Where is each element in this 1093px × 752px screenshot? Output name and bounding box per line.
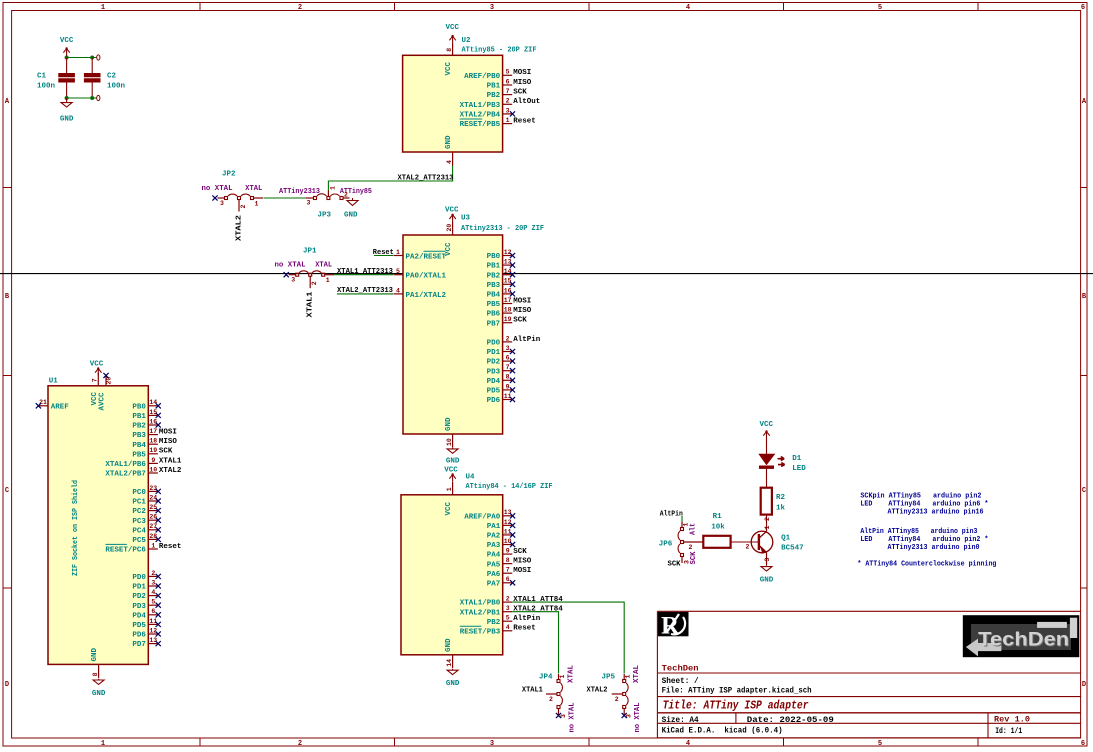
- U3 pin 1 PA2/RESET: [393, 249, 446, 262]
- wire XTAL2_ATT2313 from U2 pin4 to JP3: [328, 166, 452, 191]
- U3 pin 2 PD0: [487, 335, 541, 347]
- dangling wire end bottom: [97, 95, 100, 100]
- power symbol VCC above U3: [445, 207, 459, 223]
- U2 pin 5 AREF/PB0: [464, 69, 531, 81]
- svg-text:6: 6: [151, 608, 155, 615]
- wire VCC rail to C1/C2: [67, 57, 97, 59]
- svg-text:14: 14: [149, 399, 157, 406]
- svg-text:3: 3: [291, 277, 295, 284]
- svg-text:BC547: BC547: [781, 545, 804, 553]
- U1 pin 25 PC2: [132, 504, 160, 516]
- svg-text:Id: 1/1: Id: 1/1: [995, 727, 1022, 736]
- U3 pin 10 GND (bottom): [445, 417, 453, 448]
- svg-text:GND: GND: [446, 680, 460, 688]
- svg-text:13: 13: [149, 637, 157, 644]
- svg-text:6: 6: [1081, 4, 1085, 12]
- svg-text:MOSI: MOSI: [513, 567, 531, 575]
- svg-text:XTAL1/PB0: XTAL1/PB0: [460, 600, 501, 608]
- wire JP2 pin1 to JP3 pin3: [264, 197, 307, 199]
- wire GND rail under C1/C2: [67, 97, 97, 99]
- U3 pin 3 PD1: [487, 345, 515, 357]
- svg-text:A: A: [5, 98, 10, 106]
- svg-text:10: 10: [149, 466, 157, 473]
- svg-text:3: 3: [490, 740, 494, 748]
- wire D1 to R2: [766, 469, 768, 488]
- svg-text:7: 7: [506, 567, 510, 574]
- svg-text:3: 3: [506, 345, 510, 352]
- svg-text:17: 17: [504, 297, 512, 304]
- jumper JP5: [612, 674, 633, 718]
- svg-text:AltPin ATTiny85 arduino pin3: AltPin ATTiny85 arduino pin3: [860, 528, 977, 536]
- svg-text:PA6: PA6: [487, 571, 501, 579]
- svg-text:PD5: PD5: [487, 388, 501, 396]
- junction at C1 top: [65, 56, 69, 60]
- svg-text:PB3: PB3: [487, 282, 501, 290]
- svg-text:GND: GND: [760, 577, 774, 585]
- U1 pin 7 VCC (top): [91, 373, 99, 406]
- svg-text:12: 12: [149, 627, 157, 634]
- svg-text:MISO: MISO: [159, 438, 178, 446]
- svg-text:4: 4: [446, 160, 453, 164]
- U1 pin 3 PD1: [132, 579, 160, 591]
- svg-text:3: 3: [506, 107, 510, 114]
- svg-text:GND: GND: [445, 638, 453, 652]
- svg-text:6: 6: [506, 78, 510, 85]
- svg-text:20: 20: [106, 377, 113, 385]
- resistor R2: [761, 488, 772, 515]
- svg-text:D: D: [5, 681, 9, 689]
- power symbol VCC above U2: [445, 24, 459, 42]
- svg-text:1: 1: [764, 526, 771, 530]
- svg-text:2: 2: [506, 335, 510, 342]
- svg-text:MISO: MISO: [513, 558, 532, 566]
- svg-text:XTAL1_ATT2313: XTAL1_ATT2313: [337, 268, 393, 276]
- svg-text:XTAL2: XTAL2: [235, 214, 243, 241]
- svg-text:C: C: [5, 487, 9, 495]
- svg-text:1k: 1k: [776, 505, 786, 513]
- svg-text:GND: GND: [445, 417, 453, 431]
- ground symbol below U3: [446, 448, 460, 466]
- U3 pin 16 PB4: [487, 287, 515, 299]
- svg-text:1: 1: [396, 249, 400, 256]
- ground symbol below U1: [92, 679, 106, 698]
- svg-text:2: 2: [344, 192, 348, 199]
- svg-text:12: 12: [504, 249, 512, 256]
- svg-text:R1: R1: [713, 513, 723, 521]
- svg-text:RESET/PB5: RESET/PB5: [460, 121, 501, 129]
- U3 pin 8 PD4: [487, 374, 515, 386]
- U1 pin 17 PB3: [132, 428, 177, 440]
- U1 pin 24 PC1: [132, 494, 160, 506]
- svg-text:1: 1: [559, 675, 566, 679]
- svg-text:2: 2: [311, 281, 318, 285]
- U2 pin 1 RESET/PB5: [460, 117, 536, 129]
- svg-text:Sheet: /: Sheet: /: [662, 677, 699, 686]
- svg-text:XTAL1: XTAL1: [307, 291, 315, 318]
- svg-text:13: 13: [504, 259, 512, 266]
- U1 pin 21 AREF (left, no-connect): [36, 399, 70, 412]
- svg-text:27: 27: [149, 523, 157, 530]
- svg-text:PB2: PB2: [487, 272, 501, 280]
- svg-text:XTAL: XTAL: [633, 665, 641, 683]
- ground symbol at JP3: [344, 198, 358, 220]
- svg-text:D: D: [1082, 681, 1086, 689]
- svg-text:AVCC: AVCC: [99, 392, 107, 411]
- svg-text:5: 5: [151, 599, 155, 606]
- jumper JP6: [678, 522, 703, 564]
- U4 pin 3 XTAL2/PB1: [460, 605, 564, 617]
- U1 pin 26 PC3: [132, 514, 160, 526]
- svg-text:20: 20: [446, 224, 453, 232]
- svg-text:PB3: PB3: [132, 432, 146, 440]
- svg-text:19: 19: [504, 316, 512, 323]
- svg-text:17: 17: [149, 428, 157, 435]
- svg-text:A: A: [1082, 98, 1087, 106]
- U2 pin 7 PB2: [487, 88, 528, 100]
- svg-text:U4: U4: [466, 474, 476, 482]
- svg-text:PB2: PB2: [487, 92, 501, 100]
- ground symbol below Q1: [760, 565, 774, 584]
- svg-text:PB1: PB1: [487, 263, 501, 271]
- svg-text:21: 21: [39, 399, 47, 406]
- svg-text:2: 2: [689, 544, 693, 551]
- U3 pin 7 PD3: [487, 364, 515, 376]
- svg-text:XTAL2/PB4: XTAL2/PB4: [460, 112, 501, 120]
- svg-text:PD2: PD2: [487, 359, 501, 367]
- U3 pin 11 PD6: [487, 393, 515, 405]
- svg-text:10: 10: [504, 538, 512, 545]
- U1 pin 20 AVCC (top, no-connect): [99, 373, 113, 411]
- svg-text:PA0/XTAL1: PA0/XTAL1: [406, 273, 447, 281]
- wire XTAL1_ATT84 from U4 pin2 to JP5: [512, 602, 624, 673]
- svg-text:10: 10: [446, 438, 453, 446]
- wire XTAL2_ATT2313 to U3 pin 4: [337, 293, 393, 295]
- svg-text:6: 6: [506, 576, 510, 583]
- svg-text:19: 19: [149, 447, 157, 454]
- U1 pin 4 PD2: [132, 589, 160, 601]
- svg-text:PB2: PB2: [132, 423, 146, 431]
- svg-text:2: 2: [549, 696, 553, 703]
- svg-text:JP6: JP6: [659, 541, 673, 549]
- svg-text:Rev 1.0: Rev 1.0: [994, 715, 1030, 725]
- svg-text:XTAL1_ATT84: XTAL1_ATT84: [513, 596, 563, 604]
- U1 pin 23 PC0: [132, 485, 160, 497]
- U1 pin 1 RESET/PC6: [105, 542, 181, 554]
- svg-text:VCC: VCC: [60, 37, 74, 45]
- svg-text:12: 12: [504, 519, 512, 526]
- svg-text:PD5: PD5: [132, 622, 146, 630]
- svg-text:JP1: JP1: [303, 248, 317, 256]
- svg-text:XTAL2_ATT84: XTAL2_ATT84: [513, 606, 563, 614]
- svg-text:PB2: PB2: [487, 619, 501, 627]
- svg-text:* ATTiny84 Counterclockwise pi: * ATTiny84 Counterclockwise pinning: [857, 561, 996, 569]
- notes text block pin mapping: [857, 492, 996, 568]
- svg-text:9: 9: [506, 383, 510, 390]
- U4 pin 6 PA7: [487, 576, 515, 588]
- TechDen 3D logo: [963, 616, 1079, 657]
- svg-text:2: 2: [615, 696, 619, 703]
- svg-text:LED: LED: [792, 465, 806, 473]
- svg-text:PB1: PB1: [132, 413, 146, 421]
- svg-text:PA2: PA2: [487, 533, 501, 541]
- svg-text:JP5: JP5: [602, 674, 616, 682]
- jumper JP3: [306, 186, 350, 207]
- svg-text:PD6: PD6: [132, 632, 146, 640]
- svg-text:4: 4: [686, 4, 690, 12]
- svg-text:2: 2: [151, 570, 155, 577]
- svg-text:13: 13: [504, 509, 512, 516]
- wire XTAL1_ATT2313 from JP1 to U3: [334, 274, 393, 276]
- svg-text:XTAL1: XTAL1: [522, 686, 543, 694]
- svg-text:3: 3: [506, 605, 510, 612]
- power symbol VCC above U1: [90, 361, 104, 376]
- junction at C2 top: [90, 56, 94, 60]
- wire VCC to D1: [766, 442, 768, 454]
- svg-text:4: 4: [396, 287, 400, 294]
- U4 pin 11 PA2: [487, 528, 515, 540]
- junction at C2 bottom: [90, 96, 94, 100]
- svg-text:B: B: [5, 293, 10, 301]
- svg-text:3: 3: [220, 200, 224, 207]
- svg-text:1: 1: [446, 487, 453, 491]
- svg-text:5: 5: [396, 268, 400, 275]
- U4 pin 1 VCC (top): [445, 482, 453, 516]
- transistor Q1 BC547: [751, 526, 773, 566]
- svg-text:XTAL: XTAL: [315, 262, 332, 270]
- dangling wire end top: [97, 55, 100, 60]
- long horizontal graphic line across sheet: [0, 273, 1093, 275]
- U1 pin 14 PB0: [132, 399, 160, 411]
- svg-text:XTAL2_ATT2313: XTAL2_ATT2313: [337, 287, 393, 295]
- svg-text:1: 1: [625, 675, 632, 679]
- U4 pin 8 PA5: [487, 557, 532, 569]
- svg-text:ATtiny2313 - 20P ZIF: ATtiny2313 - 20P ZIF: [461, 225, 544, 233]
- svg-text:AltPin: AltPin: [513, 336, 541, 344]
- U1 pin 28 PC5: [132, 533, 160, 545]
- U1 pin 19 PB5: [132, 447, 173, 459]
- svg-text:PC1: PC1: [132, 499, 146, 507]
- svg-text:PD0: PD0: [487, 340, 501, 348]
- svg-text:XTAL2/PB7: XTAL2/PB7: [105, 471, 146, 479]
- svg-text:File: ATTiny ISP adapter.kicad: File: ATTiny ISP adapter.kicad_sch: [662, 686, 812, 695]
- U3 pin 17 PB5: [487, 297, 532, 309]
- svg-text:AREF/PB0: AREF/PB0: [464, 73, 501, 81]
- svg-text:ZIF Socket on ISP Shield: ZIF Socket on ISP Shield: [72, 480, 80, 576]
- svg-text:JP2: JP2: [222, 171, 236, 179]
- svg-text:VCC: VCC: [445, 24, 459, 32]
- U1 pin 18 PB4: [132, 438, 177, 450]
- U1 pin 12 PD6: [132, 627, 160, 639]
- svg-text:1: 1: [101, 740, 105, 748]
- svg-text:6: 6: [506, 355, 510, 362]
- capacitor C2: [84, 58, 101, 99]
- svg-text:AREF: AREF: [51, 404, 70, 412]
- svg-text:R2: R2: [776, 494, 786, 502]
- U1 pin 13 PD7: [132, 637, 160, 649]
- svg-text:18: 18: [504, 307, 512, 314]
- svg-text:ATTiny2313 arduino pin0: ATTiny2313 arduino pin0: [888, 544, 980, 552]
- svg-text:MOSI: MOSI: [159, 429, 177, 437]
- svg-text:MOSI: MOSI: [513, 69, 531, 77]
- svg-text:2: 2: [298, 4, 302, 12]
- svg-text:PD1: PD1: [132, 584, 146, 592]
- svg-text:ATTiny2313: ATTiny2313: [279, 188, 320, 196]
- svg-text:28: 28: [149, 533, 157, 540]
- svg-text:5: 5: [506, 69, 510, 76]
- U3 pin 4 PA1/XTAL2: [393, 287, 446, 300]
- svg-text:SCK: SCK: [513, 548, 527, 556]
- svg-text:XTAL1: XTAL1: [159, 457, 182, 465]
- svg-text:Reset: Reset: [513, 625, 536, 633]
- svg-text:VCC: VCC: [759, 421, 773, 429]
- svg-text:VCC: VCC: [445, 61, 453, 75]
- U4 pin 14 GND (bottom): [445, 638, 453, 668]
- U2 pin 4 GND (bottom): [445, 135, 453, 166]
- svg-text:VCC: VCC: [445, 501, 453, 515]
- svg-text:PB7: PB7: [487, 320, 501, 328]
- svg-text:100n: 100n: [37, 83, 56, 91]
- svg-text:XTAL2_ATT2313: XTAL2_ATT2313: [398, 174, 454, 182]
- ground symbol below U4: [446, 669, 460, 688]
- svg-text:ATTiny2313 arduino pin16: ATTiny2313 arduino pin16: [888, 509, 984, 517]
- svg-text:1: 1: [506, 117, 510, 124]
- U4 pin 9 PA4: [487, 547, 528, 559]
- svg-text:B: B: [1082, 293, 1087, 301]
- svg-text:SCK: SCK: [159, 448, 173, 456]
- jumper JP1: [284, 271, 335, 288]
- svg-text:1: 1: [326, 277, 330, 284]
- svg-text:LED ATTiny84 arduino pin2: LED ATTiny84 arduino pin2 *: [860, 536, 988, 544]
- svg-text:PB6: PB6: [487, 311, 501, 319]
- svg-text:ATtiny84 - 14/16P ZIF: ATtiny84 - 14/16P ZIF: [466, 483, 553, 491]
- svg-text:XTAL2: XTAL2: [587, 686, 608, 694]
- svg-text:15: 15: [504, 278, 512, 285]
- svg-text:15: 15: [149, 409, 157, 416]
- svg-text:PB4: PB4: [132, 442, 146, 450]
- svg-text:3: 3: [151, 579, 155, 586]
- svg-text:ATtiny85 - 20P ZIF: ATtiny85 - 20P ZIF: [462, 47, 537, 55]
- svg-text:14: 14: [504, 268, 512, 275]
- svg-text:9: 9: [506, 547, 510, 554]
- svg-text:2: 2: [746, 544, 750, 551]
- svg-text:Reset: Reset: [373, 249, 394, 257]
- svg-text:VCC: VCC: [444, 467, 458, 475]
- resistor R1: [703, 536, 730, 548]
- svg-text:PD4: PD4: [487, 378, 501, 386]
- svg-text:PA1/XTAL2: PA1/XTAL2: [406, 292, 447, 300]
- svg-text:2: 2: [298, 740, 302, 748]
- svg-text:D1: D1: [792, 455, 802, 463]
- svg-text:7: 7: [92, 378, 99, 382]
- svg-text:AltOut: AltOut: [513, 98, 540, 106]
- svg-text:2: 2: [506, 98, 510, 105]
- svg-text:GND: GND: [344, 212, 358, 220]
- wire Reset to U3 pin 1: [374, 255, 393, 257]
- svg-text:AREF/PA0: AREF/PA0: [464, 513, 501, 521]
- jumper JP2: [212, 194, 263, 211]
- U3 pin 14 PB2: [487, 268, 515, 280]
- svg-text:GND: GND: [60, 116, 74, 124]
- svg-text:XTAL2/PB1: XTAL2/PB1: [460, 609, 501, 617]
- svg-text:1: 1: [682, 523, 689, 527]
- U3 pin 15 PB3: [487, 278, 515, 290]
- svg-text:PD7: PD7: [132, 641, 146, 649]
- svg-text:PC0: PC0: [132, 489, 146, 497]
- U1 pin 16 PB2: [132, 418, 160, 430]
- U4 pin 7 PA6: [487, 567, 532, 579]
- svg-text:GND: GND: [445, 135, 453, 149]
- svg-text:XTAL1/PB6: XTAL1/PB6: [105, 461, 146, 469]
- svg-text:MISO: MISO: [513, 79, 532, 87]
- U1 pin 8 GND (bottom): [91, 647, 99, 677]
- svg-text:100n: 100n: [107, 83, 126, 91]
- svg-text:PB5: PB5: [487, 301, 501, 309]
- U1 pin 15 PB1: [132, 409, 160, 421]
- company logo R: [659, 612, 689, 639]
- svg-text:PD4: PD4: [132, 612, 146, 620]
- svg-text:U3: U3: [461, 215, 471, 223]
- svg-text:8: 8: [92, 672, 99, 676]
- svg-text:SCKpin ATTiny85 arduino pin2: SCKpin ATTiny85 arduino pin2: [860, 492, 981, 500]
- svg-text:1: 1: [151, 542, 155, 549]
- svg-text:VCC: VCC: [445, 242, 453, 256]
- svg-text:PD0: PD0: [132, 574, 146, 582]
- op-amp U4 body (ATtiny84 - 14/16P ZIF): [401, 495, 503, 655]
- svg-text:3: 3: [307, 200, 311, 207]
- svg-text:XTAL: XTAL: [568, 665, 576, 683]
- svg-text:1: 1: [255, 201, 259, 208]
- U1 pin 10 XTAL2/PB7: [105, 466, 182, 478]
- U3 pin 5 PA0/XTAL1: [393, 268, 446, 281]
- svg-text:Date: 2022-05-09: Date: 2022-05-09: [747, 716, 834, 725]
- svg-text:TechDen: TechDen: [662, 664, 699, 673]
- power symbol VCC above U4: [444, 467, 458, 482]
- U4 pin 2 XTAL1/PB0: [460, 596, 564, 608]
- op-amp U1 body (ZIF Socket on ISP Shield): [48, 386, 148, 665]
- U1 pin 6 PD4: [132, 608, 160, 620]
- svg-text:Reset: Reset: [159, 543, 182, 551]
- svg-text:TechDen: TechDen: [978, 629, 1069, 651]
- svg-text:2: 2: [764, 517, 771, 521]
- svg-text:GND: GND: [91, 647, 99, 661]
- svg-text:PA2/RESET: PA2/RESET: [406, 253, 447, 261]
- svg-text:GND: GND: [92, 690, 106, 698]
- wire R2 to Q1 collector: [766, 515, 768, 526]
- svg-text:PB5: PB5: [132, 451, 146, 459]
- svg-text:PB1: PB1: [487, 83, 501, 91]
- svg-text:LED ATTiny84 arduino pin6: LED ATTiny84 arduino pin6 *: [860, 501, 988, 509]
- U3 pin 18 PB6: [487, 307, 532, 319]
- U3 pin 13 PB1: [487, 259, 515, 271]
- U3 pin 20 VCC (top): [445, 222, 453, 256]
- wire AltPin label to JP6 pin1: [681, 516, 683, 523]
- svg-text:9: 9: [151, 457, 155, 464]
- U1 pin 11 PD5: [132, 618, 160, 630]
- svg-text:PC5: PC5: [132, 537, 146, 545]
- svg-text:7: 7: [506, 88, 510, 95]
- svg-text:XTAL2: XTAL2: [159, 467, 182, 475]
- svg-text:PD2: PD2: [132, 593, 146, 601]
- svg-text:PC4: PC4: [132, 527, 146, 535]
- svg-text:MISO: MISO: [513, 307, 532, 315]
- U4 pin 4 RESET/PB3: [460, 624, 536, 636]
- svg-text:PB4: PB4: [487, 292, 501, 300]
- svg-text:VCC: VCC: [445, 207, 459, 215]
- svg-text:3: 3: [764, 558, 771, 562]
- svg-text:XTAL1/PB3: XTAL1/PB3: [460, 102, 501, 110]
- svg-text:PA7: PA7: [487, 580, 501, 588]
- svg-text:PA5: PA5: [487, 561, 501, 569]
